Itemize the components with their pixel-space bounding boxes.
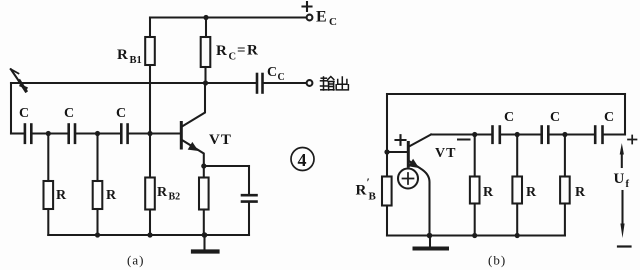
label + at base (b) <box>396 135 406 145</box>
svg-text:4: 4 <box>298 150 307 170</box>
svg-text:E: E <box>316 9 327 26</box>
svg-text:′: ′ <box>367 175 370 189</box>
resistor RE <box>199 178 209 210</box>
svg-text:B: B <box>369 191 377 203</box>
wire bottom rail (b) <box>387 234 565 236</box>
node chain 1 (b) <box>472 132 477 137</box>
label EC <box>316 9 337 29</box>
svg-text:R: R <box>216 43 227 59</box>
resistor R3 (b) <box>560 177 570 204</box>
wire chain C2-C3 (b) <box>550 133 594 135</box>
wire bottom rail (a) <box>48 234 249 236</box>
capacitor CE top lead <box>248 166 250 194</box>
transistor VT (a) emitter arrow <box>188 142 199 151</box>
node rail emitter (b) <box>427 233 433 239</box>
label (a) <box>127 253 144 268</box>
label R1 (b) <box>483 185 494 200</box>
wire RB1 top lead <box>149 18 151 38</box>
node rail R2 <box>95 232 100 237</box>
svg-text:R: R <box>575 185 586 200</box>
transistor VT (b) emitter <box>409 161 430 236</box>
source plus (b) <box>403 173 414 184</box>
wire RB1 bottom lead to base node <box>149 65 151 134</box>
node chain 3 (b) <box>562 132 567 137</box>
resistor R'B <box>382 177 392 206</box>
capacitor C1 (b) <box>493 127 500 143</box>
wire R'B bottom lead <box>386 206 388 236</box>
label C3 (a) <box>116 106 126 121</box>
label C1 (b) <box>504 110 514 125</box>
capacitor CC line <box>206 82 256 84</box>
label R1 (a) <box>56 188 67 203</box>
label C1 (a) <box>19 106 29 121</box>
node base (b) <box>384 149 389 154</box>
resistor R2 (a) lead <box>96 134 98 182</box>
capacitor C2 (a) <box>48 125 96 143</box>
node chain 2 (a) <box>95 131 100 136</box>
svg-text:B1: B1 <box>130 55 142 66</box>
label CC <box>267 65 285 83</box>
svg-text:(a): (a) <box>127 253 144 268</box>
node base (a) <box>147 131 152 136</box>
label C3 (b) <box>604 110 614 125</box>
node rail emitter <box>202 232 208 238</box>
svg-text:R: R <box>117 47 128 63</box>
label C2 (a) <box>64 106 74 121</box>
svg-text:C: C <box>229 52 237 63</box>
wire R2 (b) bottom lead <box>516 204 518 236</box>
transistor VT (b) base bar <box>407 143 410 167</box>
label R2 (a) <box>106 188 117 203</box>
label R'B <box>356 175 377 203</box>
svg-text:R: R <box>106 188 117 203</box>
ground (a) <box>193 235 218 252</box>
svg-text:R: R <box>247 43 258 59</box>
wire base lead (b) <box>387 151 407 153</box>
svg-text:C: C <box>604 110 614 125</box>
node rail RB2 <box>147 232 152 237</box>
capacitor C3 (a) <box>98 125 151 143</box>
resistor R2 (b) <box>512 177 522 204</box>
terminal output <box>307 80 313 86</box>
resistor RB2 lead <box>149 134 151 178</box>
svg-text:(b): (b) <box>488 253 506 268</box>
svg-text:R: R <box>56 188 67 203</box>
svg-text:VT: VT <box>435 146 456 161</box>
node rail R2 (b) <box>515 233 520 238</box>
node top rail over RC <box>203 15 208 20</box>
resistor R1 (a) <box>44 181 54 209</box>
svg-text:C: C <box>329 16 337 28</box>
wire R2 bottom lead <box>96 209 98 235</box>
svg-text:f: f <box>626 179 630 190</box>
resistor R1 (a) leads <box>47 134 49 182</box>
node rail R1 (b) <box>472 233 477 238</box>
transistor VT (a) base bar <box>180 123 183 149</box>
wire RC bottom lead to collector node <box>204 67 206 83</box>
label minus at collector (b) <box>458 139 470 141</box>
resistor R1 (b) lead <box>474 135 476 177</box>
wire feedback line y83 from left edge to CC <box>11 82 256 84</box>
label VT (a) <box>209 132 232 148</box>
svg-text:R: R <box>157 185 168 200</box>
wire chain C3 to right edge (b) <box>604 133 625 135</box>
capacitor C2 (b) <box>542 127 549 143</box>
svg-text:C: C <box>278 72 285 83</box>
resistor RE lead <box>203 166 205 178</box>
node chain 2 (b) <box>515 132 520 137</box>
wire left vertical (b) <box>386 94 388 152</box>
wire chain C1-C2 (b) <box>501 133 540 135</box>
phase slash mark at top-left corner <box>11 69 27 92</box>
label Uf <box>614 171 630 190</box>
label VT (b) <box>435 146 456 161</box>
transistor VT (b) emitter arrow <box>408 159 419 168</box>
svg-text:B2: B2 <box>169 192 181 203</box>
svg-text:C: C <box>504 110 514 125</box>
Uf up arrow <box>621 150 623 167</box>
label RB2 <box>157 185 180 203</box>
capacitor CC <box>257 74 263 93</box>
node emitter (a) <box>201 163 206 168</box>
transistor VT (a) emitter <box>182 140 204 166</box>
svg-text:=: = <box>237 43 246 59</box>
svg-text:U: U <box>614 171 625 187</box>
resistor R1 (b) <box>470 177 480 204</box>
resistor R2 (a) <box>93 181 103 209</box>
svg-text:R: R <box>356 183 367 199</box>
svg-text:R: R <box>526 185 537 200</box>
resistor R'B lead <box>386 152 388 177</box>
svg-text:C: C <box>116 106 126 121</box>
wire RB2 bottom lead <box>149 210 151 236</box>
resistor RB1 <box>145 37 155 65</box>
label minus at Uf bottom <box>618 245 631 247</box>
label shuchu (output) glyphs <box>321 77 349 91</box>
wire R1 bottom lead <box>47 209 49 235</box>
wire CC to output terminal <box>264 82 306 84</box>
svg-text:R: R <box>483 185 494 200</box>
capacitor CE bottom lead <box>248 203 250 235</box>
node collector junction <box>203 80 208 85</box>
capacitor C3 (b) <box>595 127 602 143</box>
label R2 (b) <box>526 185 537 200</box>
wire emitter to CE <box>204 165 249 167</box>
wire top rail (a) <box>150 16 306 18</box>
wire right vertical (b) <box>624 94 626 135</box>
label RC = R <box>216 43 258 63</box>
source circle (b) <box>398 169 418 189</box>
wire chain line (b) collector to C1 <box>431 133 491 135</box>
resistor R2 (b) lead <box>516 135 518 177</box>
label (b) <box>488 253 506 268</box>
ground (b) <box>415 236 448 249</box>
wire R1 (b) bottom lead <box>474 204 476 236</box>
wire R3 (b) bottom lead <box>564 204 566 236</box>
svg-text:C: C <box>19 106 29 121</box>
svg-text:C: C <box>267 65 277 80</box>
svg-text:C: C <box>64 106 74 121</box>
transistor VT (b) collector <box>409 135 431 147</box>
node chain 1 (a) <box>46 131 51 136</box>
wire left edge vertical <box>10 83 12 134</box>
label circled 4 <box>291 148 314 171</box>
resistor R3 (b) lead <box>564 135 566 177</box>
label C2 (b) <box>550 110 560 125</box>
capacitor CE <box>242 195 257 201</box>
svg-text:C: C <box>550 110 560 125</box>
wire top rail (b) <box>387 93 625 95</box>
Uf down arrow <box>621 191 623 228</box>
wire RE bottom lead <box>203 210 205 236</box>
wire base line to VT <box>150 132 180 134</box>
capacitor C1 (a) <box>11 125 47 143</box>
resistor RC <box>201 37 211 67</box>
label R3 (b) <box>575 185 586 200</box>
label + at Uf <box>628 136 637 144</box>
label + (EC) <box>303 2 312 11</box>
svg-text:VT: VT <box>209 132 232 148</box>
transistor VT (a) collector <box>182 83 205 127</box>
terminal EC <box>307 15 313 21</box>
wire RC top lead <box>205 18 207 38</box>
resistor RB2 <box>145 178 155 210</box>
label RB1 <box>117 47 142 66</box>
